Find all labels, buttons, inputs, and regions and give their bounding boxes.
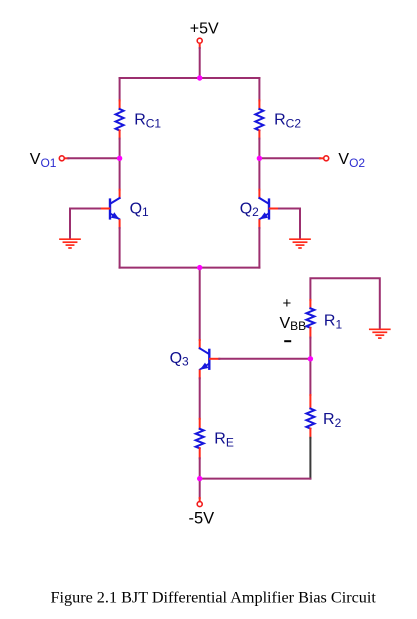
wire emitter rail — [120, 267, 260, 269]
+5V terminal — [197, 38, 202, 43]
wire RC2 to node VO2 — [258, 139, 260, 159]
ground Q2 — [290, 239, 310, 248]
svg-text:Figure 2.1 BJT Differential Am: Figure 2.1 BJT Differential Amplifier Bi… — [51, 588, 377, 606]
wire R1 top to ground corner — [310, 278, 379, 328]
wire Q2 base to ground — [279, 209, 300, 239]
label minus VBB — [284, 340, 291, 342]
wire RC1 to node VO1 — [119, 139, 121, 159]
svg-text:VO2: VO2 — [338, 151, 365, 170]
wire node VO1 to Q1 collector — [119, 158, 121, 189]
wire R2 to bottom rail (black) — [309, 438, 311, 479]
junction top rail — [197, 75, 202, 80]
svg-text:Q2: Q2 — [240, 200, 259, 219]
resistor R1 — [306, 300, 314, 338]
wire Q3 emitter to RE — [199, 378, 201, 419]
wire Q1 emitter to emitter rail — [119, 228, 121, 268]
junction node VBB — [308, 356, 313, 361]
transistor Q3 — [200, 340, 220, 378]
resistor RE — [196, 419, 204, 459]
svg-text:RC1: RC1 — [134, 111, 161, 130]
svg-text:VO1: VO1 — [30, 151, 57, 170]
junction emitter rail — [197, 265, 202, 270]
wire top rail to RC1 — [119, 78, 121, 100]
wire Q1 base to ground — [70, 209, 100, 239]
junction node VO1 — [117, 156, 122, 161]
resistor RC2 — [255, 100, 263, 138]
ground Q1 — [60, 239, 80, 248]
junction node VO2 — [257, 156, 262, 161]
wire node VO1 — [65, 157, 69, 159]
-5V terminal — [197, 502, 202, 507]
ground R1 — [370, 329, 390, 338]
svg-text:+: + — [283, 295, 292, 312]
wire R1 bottom to node VBB — [309, 338, 311, 359]
svg-text:Q3: Q3 — [170, 350, 189, 369]
VO1 terminal — [59, 156, 64, 161]
wire top rail — [120, 77, 260, 79]
svg-text:+5V: +5V — [190, 20, 219, 37]
wire bottom rail — [200, 478, 311, 480]
wire +5V terminal to top rail — [199, 44, 201, 48]
wire Q2 emitter to emitter rail — [258, 228, 260, 268]
svg-text:VBB: VBB — [280, 315, 307, 333]
VO2 terminal — [324, 156, 329, 161]
svg-text:R1: R1 — [324, 313, 343, 332]
transistor Q2 — [259, 190, 279, 228]
wire emitter rail to Q3 collector — [199, 268, 201, 340]
wire Q3 base to node VBB — [219, 358, 310, 360]
svg-text:RC2: RC2 — [274, 111, 301, 130]
svg-text:RE: RE — [214, 430, 234, 449]
svg-text:-5V: -5V — [189, 509, 215, 527]
junction -5V node — [197, 476, 202, 481]
resistor R2 — [306, 395, 314, 438]
transistor Q1 — [100, 190, 120, 228]
wire top rail to RC2 — [258, 78, 260, 100]
resistor RC1 — [116, 100, 124, 138]
wire node VBB to R2 — [309, 359, 311, 395]
wire RE bottom to -5V node — [199, 458, 201, 478]
wire -5V node to terminal — [199, 479, 201, 498]
wire node VO2 — [259, 157, 320, 159]
svg-text:Q1: Q1 — [130, 200, 149, 219]
wire node VO2 to Q2 collector — [258, 158, 260, 189]
svg-text:R2: R2 — [323, 411, 342, 430]
